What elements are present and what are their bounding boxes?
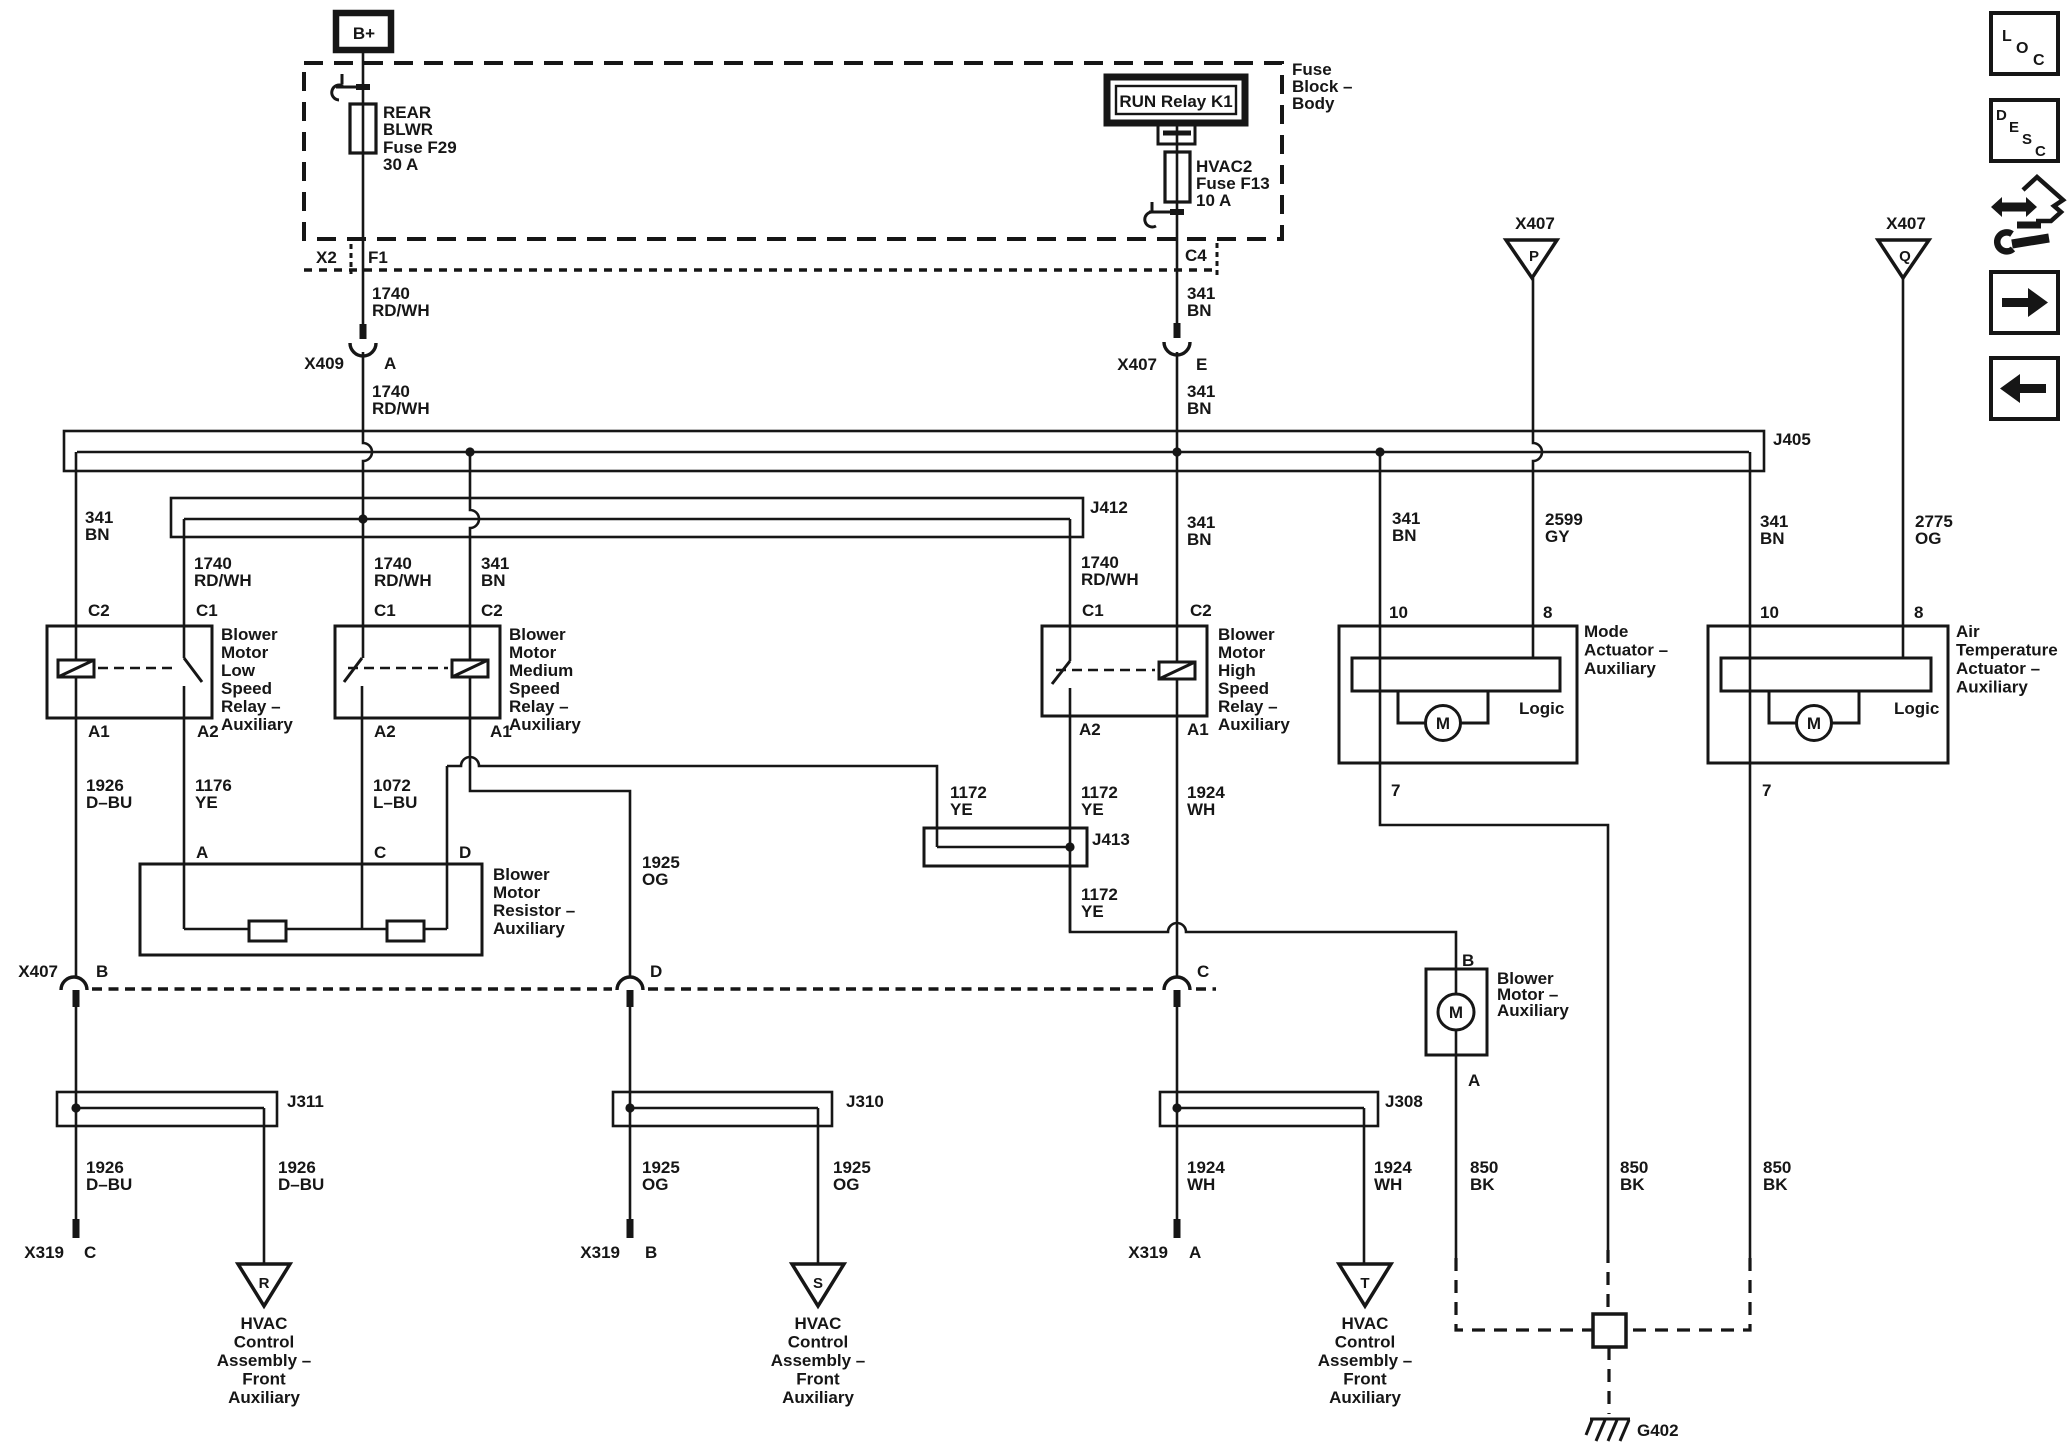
svg-text:Control: Control (788, 1333, 848, 1352)
wire 1925 OG medium relay A1 down and right to X407 D (470, 677, 630, 977)
svg-text:X407: X407 (1117, 355, 1157, 374)
svg-text:G402: G402 (1637, 1421, 1679, 1440)
svg-text:B+: B+ (353, 24, 375, 43)
connector X319 pin A stub (1128, 1219, 1201, 1262)
svg-text:Auxiliary: Auxiliary (1218, 715, 1290, 734)
svg-text:C1: C1 (374, 601, 396, 620)
ground splice box (1593, 1314, 1626, 1347)
wire label 341 BN above X407 E (1187, 284, 1215, 320)
wire label 1926 D-BU at triangle R (278, 1158, 324, 1194)
svg-text:Auxiliary: Auxiliary (493, 919, 565, 938)
svg-text:Assembly –: Assembly – (1318, 1351, 1413, 1370)
svg-text:A: A (1189, 1243, 1201, 1262)
wire label 1926 D-BU below X407 B (86, 1158, 132, 1194)
svg-text:BN: BN (481, 571, 506, 590)
svg-text:A: A (196, 843, 208, 862)
svg-text:A: A (1468, 1071, 1480, 1090)
svg-text:BK: BK (1620, 1175, 1645, 1194)
connector X319 pin B stub (580, 1219, 657, 1262)
wire 341 BN from J405 hopping J412 to medium relay C2 (470, 452, 479, 660)
high relay contact lower stub to A2 (1069, 688, 1072, 932)
legend forward arrow box (1991, 272, 2058, 333)
fuse F29 value label (383, 103, 457, 174)
resistor internal wire A to first element (184, 928, 249, 931)
wire 341 BN from J405 to mode actuator pin 10 and through to pin 7 path (1380, 452, 1608, 1250)
svg-text:10 A: 10 A (1196, 191, 1231, 210)
connector X407 pin B (18, 962, 108, 1007)
svg-text:C4: C4 (1185, 246, 1207, 265)
wire 341 BN J405 left end to low relay C2 (75, 452, 78, 660)
svg-text:Motor: Motor (509, 643, 557, 662)
junction node on J412 at medium relay feed (358, 514, 367, 523)
svg-text:Q: Q (1899, 248, 1911, 265)
svg-text:Blower: Blower (221, 625, 278, 644)
svg-text:Low: Low (221, 661, 256, 680)
svg-text:RD/WH: RD/WH (374, 571, 432, 590)
splice J308 box (1160, 1092, 1378, 1126)
wire resistor pin D riser (446, 766, 449, 929)
connector X2 pin F1 labels (316, 244, 388, 274)
off-page triangle S (792, 1264, 844, 1306)
wire label 341 BN at air temperature actuator pin 10 (1760, 512, 1788, 548)
splice J310 box (613, 1092, 832, 1126)
svg-text:X319: X319 (24, 1243, 64, 1262)
svg-text:D: D (459, 843, 471, 862)
svg-text:Blower: Blower (493, 865, 550, 884)
wire label 341 BN at medium relay C2 (481, 554, 509, 590)
svg-text:D: D (1996, 107, 2007, 124)
wire label 1924 WH at triangle T (1374, 1158, 1412, 1194)
svg-text:30 A: 30 A (383, 155, 418, 174)
svg-text:Auxiliary: Auxiliary (1956, 678, 2028, 697)
fuse block bus clamp above fuse F29 (332, 74, 370, 100)
fuse block bus clamp below relay K1 (1158, 126, 1195, 144)
svg-text:Control: Control (234, 1333, 294, 1352)
blower motor box (1426, 969, 1487, 1055)
wire 1924 WH X407 C to J308 and X319 A (1176, 1007, 1179, 1219)
svg-text:J308: J308 (1385, 1092, 1423, 1111)
svg-text:Auxiliary: Auxiliary (509, 715, 581, 734)
svg-text:Actuator –: Actuator – (1584, 641, 1668, 660)
fuse F13 value label (1196, 157, 1270, 210)
wire label 1072 L-BU medium relay A2 (373, 776, 417, 812)
splice J311 box (57, 1092, 277, 1126)
RUN relay K1 (1107, 77, 1245, 123)
svg-text:Temperature: Temperature (1956, 641, 2058, 660)
svg-text:D: D (650, 962, 662, 981)
off-page triangle R (238, 1264, 290, 1306)
connector X319 pin C stub (24, 1219, 96, 1262)
svg-text:C: C (1197, 962, 1209, 981)
wire 2775 OG from Q to air temperature actuator pin 8 (1902, 278, 1905, 658)
svg-text:YE: YE (1081, 902, 1104, 921)
dashed lead to ground G402 (1607, 1347, 1610, 1414)
svg-text:BN: BN (1760, 529, 1785, 548)
svg-text:10: 10 (1760, 603, 1779, 622)
wire 1926 D-BU low relay A1 to X407 B (75, 677, 78, 977)
junction node on J405 at 341 BN feed (1172, 447, 1181, 456)
svg-text:C2: C2 (88, 601, 110, 620)
svg-text:C1: C1 (196, 601, 218, 620)
svg-text:L: L (2002, 28, 2012, 45)
svg-text:D–BU: D–BU (278, 1175, 324, 1194)
wire label 1924 WH at high relay A1 (1187, 783, 1225, 819)
svg-text:X319: X319 (1128, 1243, 1168, 1262)
svg-text:Assembly –: Assembly – (771, 1351, 866, 1370)
svg-text:HVAC: HVAC (795, 1314, 842, 1333)
ground symbol G402 (1586, 1419, 1630, 1441)
svg-text:YE: YE (195, 793, 218, 812)
wire 1740 RD/WH from X409 hopping J405 to J412 and medium relay C1 (363, 352, 372, 658)
svg-text:High: High (1218, 661, 1256, 680)
svg-text:BLWR: BLWR (383, 120, 433, 139)
svg-text:F1: F1 (368, 248, 388, 267)
svg-text:Body: Body (1292, 94, 1335, 113)
svg-text:Actuator –: Actuator – (1956, 659, 2040, 678)
wire 1926 D-BU X407 B to J311 and X319 C (75, 1007, 78, 1219)
dashed ground run from mode actuator pin 7 (1606, 1250, 1609, 1314)
svg-text:WH: WH (1374, 1175, 1402, 1194)
air temperature actuator motor M (1769, 691, 1859, 741)
svg-text:M: M (1807, 714, 1821, 733)
svg-text:OG: OG (833, 1175, 859, 1194)
svg-text:YE: YE (950, 800, 973, 819)
wire label 1740 RD/WH below X409 (372, 382, 430, 418)
svg-text:C1: C1 (1082, 601, 1104, 620)
svg-text:Relay –: Relay – (1218, 697, 1278, 716)
svg-text:D–BU: D–BU (86, 1175, 132, 1194)
blower motor resistor name label (493, 865, 575, 938)
svg-text:OG: OG (1915, 529, 1941, 548)
wire label 1740 RD/WH above X409 (372, 284, 430, 320)
svg-text:Relay –: Relay – (509, 697, 569, 716)
wire 1740 RD/WH J412 right end to high relay C1 (1069, 519, 1072, 661)
svg-text:C: C (2033, 52, 2045, 69)
junction node on J413 at high relay A2 wire (1065, 842, 1074, 851)
low relay contact blade (184, 658, 202, 682)
svg-text:J412: J412 (1090, 498, 1128, 517)
svg-text:Auxiliary: Auxiliary (221, 715, 293, 734)
B+ terminal (336, 13, 391, 50)
svg-text:Speed: Speed (509, 679, 560, 698)
wire 1172 YE resistor pin D to splice J413, hopping medium A1 wire (447, 757, 937, 847)
fuse F29 REAR BLWR 30 A (350, 104, 376, 153)
legend service icon with double arrow and wrench (1991, 177, 2063, 251)
wire label 1740 RD/WH at low relay C1 (194, 554, 252, 590)
svg-text:C: C (374, 843, 386, 862)
svg-text:OG: OG (642, 1175, 668, 1194)
wire label 1925 OG at triangle S (833, 1158, 871, 1194)
HVAC control assembly label at S (771, 1314, 866, 1407)
wire label 1176 YE low relay A2 (195, 776, 232, 812)
svg-text:7: 7 (1762, 781, 1771, 800)
blower motor resistor box (140, 864, 482, 955)
fuse block connector row dotted line (304, 268, 1218, 271)
junction node on J308 (1172, 1103, 1181, 1112)
svg-text:Logic: Logic (1519, 699, 1564, 718)
off-page triangle T (1339, 1264, 1391, 1306)
svg-text:Front: Front (242, 1370, 286, 1389)
svg-text:C2: C2 (481, 601, 503, 620)
svg-text:M: M (1449, 1003, 1463, 1022)
connector X407 pin C (1164, 962, 1209, 1007)
high relay coil-contact dashed link (1056, 669, 1155, 672)
svg-text:X319: X319 (580, 1243, 620, 1262)
svg-text:A2: A2 (1079, 720, 1101, 739)
svg-text:C: C (84, 1243, 96, 1262)
blower motor name label (1497, 969, 1569, 1020)
svg-text:BK: BK (1763, 1175, 1788, 1194)
low relay coil (58, 660, 94, 677)
svg-text:RUN Relay K1: RUN Relay K1 (1119, 92, 1232, 111)
svg-text:X407: X407 (1886, 214, 1926, 233)
svg-text:RD/WH: RD/WH (372, 399, 430, 418)
svg-text:BN: BN (1392, 526, 1417, 545)
HVAC control assembly label at T (1318, 1314, 1413, 1407)
svg-text:X407: X407 (18, 962, 58, 981)
air temperature actuator box (1708, 626, 1948, 763)
svg-text:Medium: Medium (509, 661, 573, 680)
wire 1924 WH high relay A1 to X407 C (1176, 679, 1179, 977)
svg-text:Air: Air (1956, 622, 1980, 641)
high relay name label (1218, 625, 1290, 734)
svg-text:Auxiliary: Auxiliary (1497, 1001, 1569, 1020)
svg-text:D–BU: D–BU (86, 793, 132, 812)
legend DESC box (1991, 100, 2058, 161)
HVAC control assembly label at R (217, 1314, 312, 1407)
svg-text:YE: YE (1081, 800, 1104, 819)
wire label 2599 GY at mode actuator pin 8 (1545, 510, 1583, 546)
junction node on J310 (625, 1103, 634, 1112)
wire 850 BK air temperature actuator pin 7 down (1749, 763, 1752, 1258)
wire label 1926 D-BU above X407 B (86, 776, 132, 812)
wire label 2775 OG at air temperature actuator pin 8 (1915, 512, 1953, 548)
svg-text:BN: BN (1187, 399, 1212, 418)
svg-text:B: B (1462, 951, 1474, 970)
svg-text:RD/WH: RD/WH (1081, 570, 1139, 589)
splice J413 box (924, 828, 1087, 866)
wire 1172 YE from J413 to blower motor B, hopping 1924 WH wire (1070, 866, 1456, 994)
svg-text:Relay –: Relay – (221, 697, 281, 716)
medium relay coil-contact dashed link (348, 667, 448, 670)
wire label 1925 OG above X407 D (642, 853, 680, 889)
connector X409 pin A (304, 324, 396, 373)
blower motor low speed relay K box (47, 626, 212, 718)
wire 1925 OG X407 D to J310 and X319 B (629, 1007, 632, 1219)
resistor element 1 (249, 921, 286, 941)
connector X407 dashed line (92, 987, 1216, 990)
svg-text:J413: J413 (1092, 830, 1130, 849)
svg-text:J405: J405 (1773, 430, 1811, 449)
svg-text:A2: A2 (374, 722, 396, 741)
svg-text:Motor: Motor (221, 643, 269, 662)
high relay contact blade (1052, 661, 1070, 684)
svg-text:A2: A2 (197, 722, 219, 741)
wire 1925 OG J310 to triangle S (817, 1108, 820, 1264)
svg-text:Control: Control (1335, 1333, 1395, 1352)
wire label 1925 OG below X407 D (642, 1158, 680, 1194)
svg-text:A1: A1 (88, 722, 110, 741)
svg-text:BN: BN (1187, 301, 1212, 320)
medium relay contact blade (344, 658, 362, 682)
svg-text:BN: BN (1187, 530, 1212, 549)
low relay name label (221, 625, 293, 734)
svg-text:X2: X2 (316, 248, 337, 267)
svg-text:Auxiliary: Auxiliary (782, 1388, 854, 1407)
wire label 850 BK at mode actuator ground path (1620, 1158, 1648, 1194)
svg-text:A1: A1 (490, 722, 512, 741)
wire 341 BN from X407 E to J405 and high speed relay C2 (1176, 352, 1179, 662)
legend back arrow box (1991, 358, 2058, 419)
mode actuator box (1339, 626, 1577, 763)
svg-text:Front: Front (796, 1370, 840, 1389)
svg-text:Blower: Blower (509, 625, 566, 644)
svg-text:Speed: Speed (1218, 679, 1269, 698)
dashed ground run from blower motor A (1456, 1258, 1593, 1330)
low relay contact lower stub to A2 (183, 686, 186, 929)
svg-text:Motor: Motor (1218, 643, 1266, 662)
blower motor high speed relay box (1042, 626, 1207, 716)
fuse F13 HVAC2 10 A (1165, 152, 1190, 202)
splice bus J412 (171, 498, 1083, 537)
wire label 1924 WH below X407 C (1187, 1158, 1225, 1194)
medium relay name label (509, 625, 581, 734)
blower motor medium speed relay box (335, 626, 500, 718)
svg-text:Speed: Speed (221, 679, 272, 698)
wire label 341 BN at high relay C2 (1187, 513, 1215, 549)
fuse block body label (1292, 60, 1352, 113)
svg-text:M: M (1436, 714, 1450, 733)
svg-text:8: 8 (1543, 603, 1552, 622)
connector X407 pin P (1506, 214, 1557, 278)
svg-text:RD/WH: RD/WH (194, 571, 252, 590)
medium relay contact lower stub to A2 (361, 686, 364, 929)
svg-text:OG: OG (642, 870, 668, 889)
svg-text:T: T (1360, 1275, 1369, 1292)
wire label 341 BN below X407 E (1187, 382, 1215, 418)
blower motor M (1438, 994, 1474, 1030)
fuse block bus clamp below fuse F13 (1145, 202, 1184, 227)
svg-text:WH: WH (1187, 800, 1215, 819)
wire label 1740 RD/WH at high relay C1 (1081, 553, 1139, 589)
wire 1926 D-BU J311 to triangle R (263, 1108, 266, 1264)
wire label 1740 RD/WH at medium relay C1 (374, 554, 432, 590)
svg-text:Assembly –: Assembly – (217, 1351, 312, 1370)
svg-text:Front: Front (1343, 1370, 1387, 1389)
wire label 341 BN at low relay C2 (85, 508, 113, 544)
junction node on J405 at medium relay C2 drop (465, 447, 474, 456)
svg-text:GY: GY (1545, 527, 1570, 546)
svg-text:Auxiliary: Auxiliary (1584, 659, 1656, 678)
svg-text:7: 7 (1391, 781, 1400, 800)
svg-text:S: S (2022, 131, 2032, 148)
svg-text:E: E (2009, 119, 2019, 136)
medium relay coil (452, 660, 488, 677)
svg-text:HVAC: HVAC (1342, 1314, 1389, 1333)
connector X407 pin E (1117, 323, 1207, 374)
mode actuator logic block (1352, 658, 1560, 691)
svg-text:R: R (259, 1275, 270, 1292)
svg-text:J310: J310 (846, 1092, 884, 1111)
svg-text:HVAC: HVAC (241, 1314, 288, 1333)
svg-text:BN: BN (85, 525, 110, 544)
svg-text:B: B (96, 962, 108, 981)
wire label 1172 YE left of J413 (950, 783, 987, 819)
svg-text:P: P (1529, 248, 1539, 265)
connector C4 label (1185, 243, 1217, 277)
dashed ground run from air temperature actuator (1626, 1258, 1750, 1330)
air temperature actuator name label (1956, 622, 2058, 697)
wire label 341 BN at mode actuator pin 10 (1392, 509, 1420, 545)
wire from relay K1 down through fuse F13 to connector X407 E (1176, 123, 1179, 323)
wire 1924 WH J308 to triangle T (1363, 1108, 1366, 1264)
wire from B+ down through fuse F29 to connector X409 (362, 50, 365, 324)
fuse block body dashed boundary (304, 63, 1282, 239)
wire 850 BK blower motor A down (1455, 1030, 1458, 1258)
svg-text:O: O (2016, 40, 2028, 57)
high relay coil (1159, 662, 1195, 679)
wire 1740 RD/WH J412 left end to low relay C1 (183, 519, 186, 658)
junction node on J311 (71, 1103, 80, 1112)
wire label 1172 YE at high relay A2 (1081, 783, 1118, 819)
junction node on J405 at mode actuator drop (1375, 447, 1384, 456)
wire label 1172 YE below J413 (1081, 885, 1118, 921)
svg-text:RD/WH: RD/WH (372, 301, 430, 320)
svg-text:E: E (1196, 355, 1207, 374)
svg-text:C2: C2 (1190, 601, 1212, 620)
legend LOC box (1991, 13, 2058, 74)
wire label 850 BK at blower motor (1470, 1158, 1498, 1194)
svg-text:Motor: Motor (493, 883, 541, 902)
svg-text:A1: A1 (1187, 720, 1209, 739)
wire label 850 BK at air temperature actuator ground path (1763, 1158, 1791, 1194)
low relay coil-contact dashed link (98, 667, 178, 670)
svg-text:Mode: Mode (1584, 622, 1628, 641)
svg-text:Logic: Logic (1894, 699, 1939, 718)
svg-text:WH: WH (1187, 1175, 1215, 1194)
resistor internal wire to pin D (424, 928, 447, 931)
svg-text:8: 8 (1914, 603, 1923, 622)
svg-text:L–BU: L–BU (373, 793, 417, 812)
svg-text:10: 10 (1389, 603, 1408, 622)
svg-text:X409: X409 (304, 354, 344, 373)
svg-text:Blower: Blower (1218, 625, 1275, 644)
svg-text:Auxiliary: Auxiliary (228, 1388, 300, 1407)
connector X407 pin D (617, 962, 662, 1007)
svg-text:Resistor –: Resistor – (493, 901, 575, 920)
svg-text:S: S (813, 1275, 823, 1292)
wire 341 BN J405 right end to air temperature actuator pin 10 (1749, 452, 1752, 763)
svg-text:B: B (645, 1243, 657, 1262)
connector X407 pin Q (1878, 214, 1929, 278)
svg-text:Auxiliary: Auxiliary (1329, 1388, 1401, 1407)
svg-text:A: A (384, 354, 396, 373)
splice bus J405 (64, 431, 1764, 471)
svg-text:BK: BK (1470, 1175, 1495, 1194)
svg-text:J311: J311 (287, 1092, 324, 1111)
svg-text:X407: X407 (1515, 214, 1555, 233)
resistor internal wire between elements (286, 928, 387, 931)
mode actuator name label (1584, 622, 1668, 678)
mode actuator motor M (1398, 691, 1488, 741)
resistor element 2 (387, 921, 424, 941)
wire 2599 GY from P hopping J405 to mode actuator pin 8 (1533, 278, 1542, 658)
air temperature actuator logic block (1721, 658, 1931, 691)
svg-text:C: C (2035, 143, 2046, 160)
